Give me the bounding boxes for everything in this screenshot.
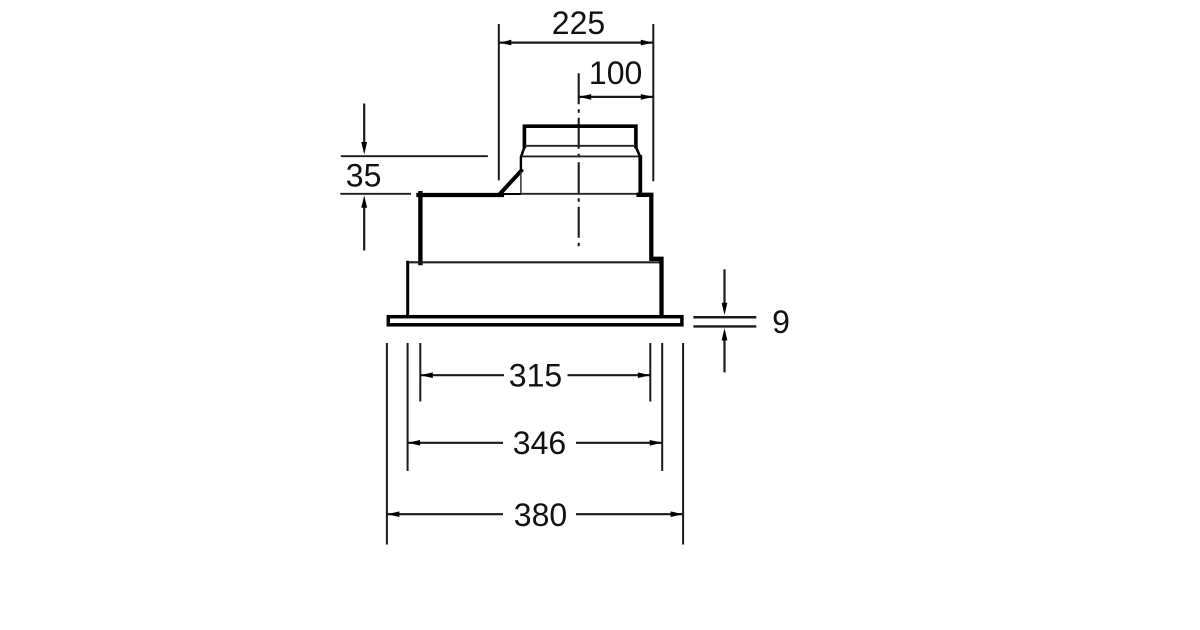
dimension 346 line right segment bbox=[576, 442, 662, 444]
hood tier1 left vertical bbox=[418, 193, 422, 263]
collar base right edge bbox=[638, 157, 642, 195]
svg-text:100: 100 bbox=[589, 55, 642, 91]
hood tier2 left vertical bbox=[406, 262, 409, 315]
dimension 225 left extension line bbox=[498, 24, 500, 180]
hood tier2 top line bbox=[406, 261, 661, 263]
dimension 35 up arrowhead bbox=[361, 195, 367, 207]
centerline (duct axis, dash-dot) bbox=[578, 73, 580, 248]
dimension 9 up arrow tail bbox=[723, 340, 725, 372]
dimension 35 upper reference line bbox=[341, 155, 488, 157]
svg-text:225: 225 bbox=[552, 5, 605, 41]
dimension 9 lower reference line bbox=[693, 325, 756, 327]
collar left diagonal chamfer bbox=[500, 171, 521, 194]
dimension 35 down arrowhead bbox=[361, 142, 367, 155]
hood tier1 top right (thin) bbox=[521, 193, 639, 195]
svg-text:9: 9 bbox=[772, 304, 790, 340]
extension line 380 left bbox=[386, 343, 388, 545]
collar base left edge bbox=[520, 157, 522, 172]
dimension 380 line right segment bbox=[576, 513, 683, 515]
dimension 225 right arrowhead bbox=[641, 40, 654, 46]
collar flare bottom edge bbox=[521, 155, 641, 157]
svg-text:35: 35 bbox=[346, 158, 382, 194]
dimension 225 left arrowhead bbox=[499, 40, 512, 46]
collar rim (duct spigot top) bbox=[524, 126, 636, 146]
dimension 100 right arrowhead bbox=[641, 94, 654, 100]
dimension 35 down arrow tail bbox=[363, 104, 365, 144]
dimension 315 left arrowhead bbox=[420, 372, 433, 378]
dimension 35 lower reference line bbox=[340, 193, 411, 195]
collar flare left bbox=[521, 147, 525, 158]
extension line 315 left bbox=[419, 343, 421, 402]
dimension 100 left arrowhead bbox=[579, 94, 592, 100]
collar flare right bbox=[636, 147, 641, 158]
dimension 380 right arrowhead bbox=[671, 511, 684, 517]
svg-text:380: 380 bbox=[514, 497, 567, 533]
dimension 315 line left segment bbox=[420, 374, 504, 376]
collar rim bottom edge bbox=[524, 145, 636, 147]
dimension 225 line bbox=[499, 41, 654, 43]
collar hidden edge vertical bbox=[520, 172, 522, 195]
hood right side steps (tier1+tier2) bbox=[639, 195, 662, 316]
hood tier1 top under diagonal bbox=[500, 193, 521, 195]
dimension 100 line bbox=[579, 96, 654, 98]
svg-text:346: 346 bbox=[513, 425, 566, 461]
dimension 9 up arrowhead bbox=[722, 328, 728, 340]
extension line 346 right bbox=[661, 343, 663, 471]
dimension 35 up arrow tail bbox=[363, 207, 365, 251]
extension line 346 left bbox=[407, 343, 409, 471]
hood tier1 top left (thick) bbox=[418, 193, 502, 197]
dimension 346 right arrowhead bbox=[650, 440, 663, 446]
flange plate (380 wide, 9 thick) bbox=[388, 317, 682, 325]
dimension 315 right arrowhead bbox=[638, 372, 651, 378]
dimension 315 line right segment bbox=[568, 374, 651, 376]
dimension 346 left arrowhead bbox=[408, 440, 421, 446]
extension line 315 right bbox=[649, 343, 651, 402]
svg-text:315: 315 bbox=[509, 357, 562, 393]
dimension 380 line left segment bbox=[387, 513, 503, 515]
dimension 9 down arrow tail bbox=[723, 269, 725, 303]
dimension 9 upper reference line bbox=[693, 316, 756, 319]
dimension 225 right extension line bbox=[652, 24, 654, 181]
dimension 346 line left segment bbox=[408, 442, 503, 444]
dimension 9 down arrowhead bbox=[722, 303, 728, 315]
extension line 380 right bbox=[682, 343, 684, 545]
dimension 380 left arrowhead bbox=[387, 511, 400, 517]
